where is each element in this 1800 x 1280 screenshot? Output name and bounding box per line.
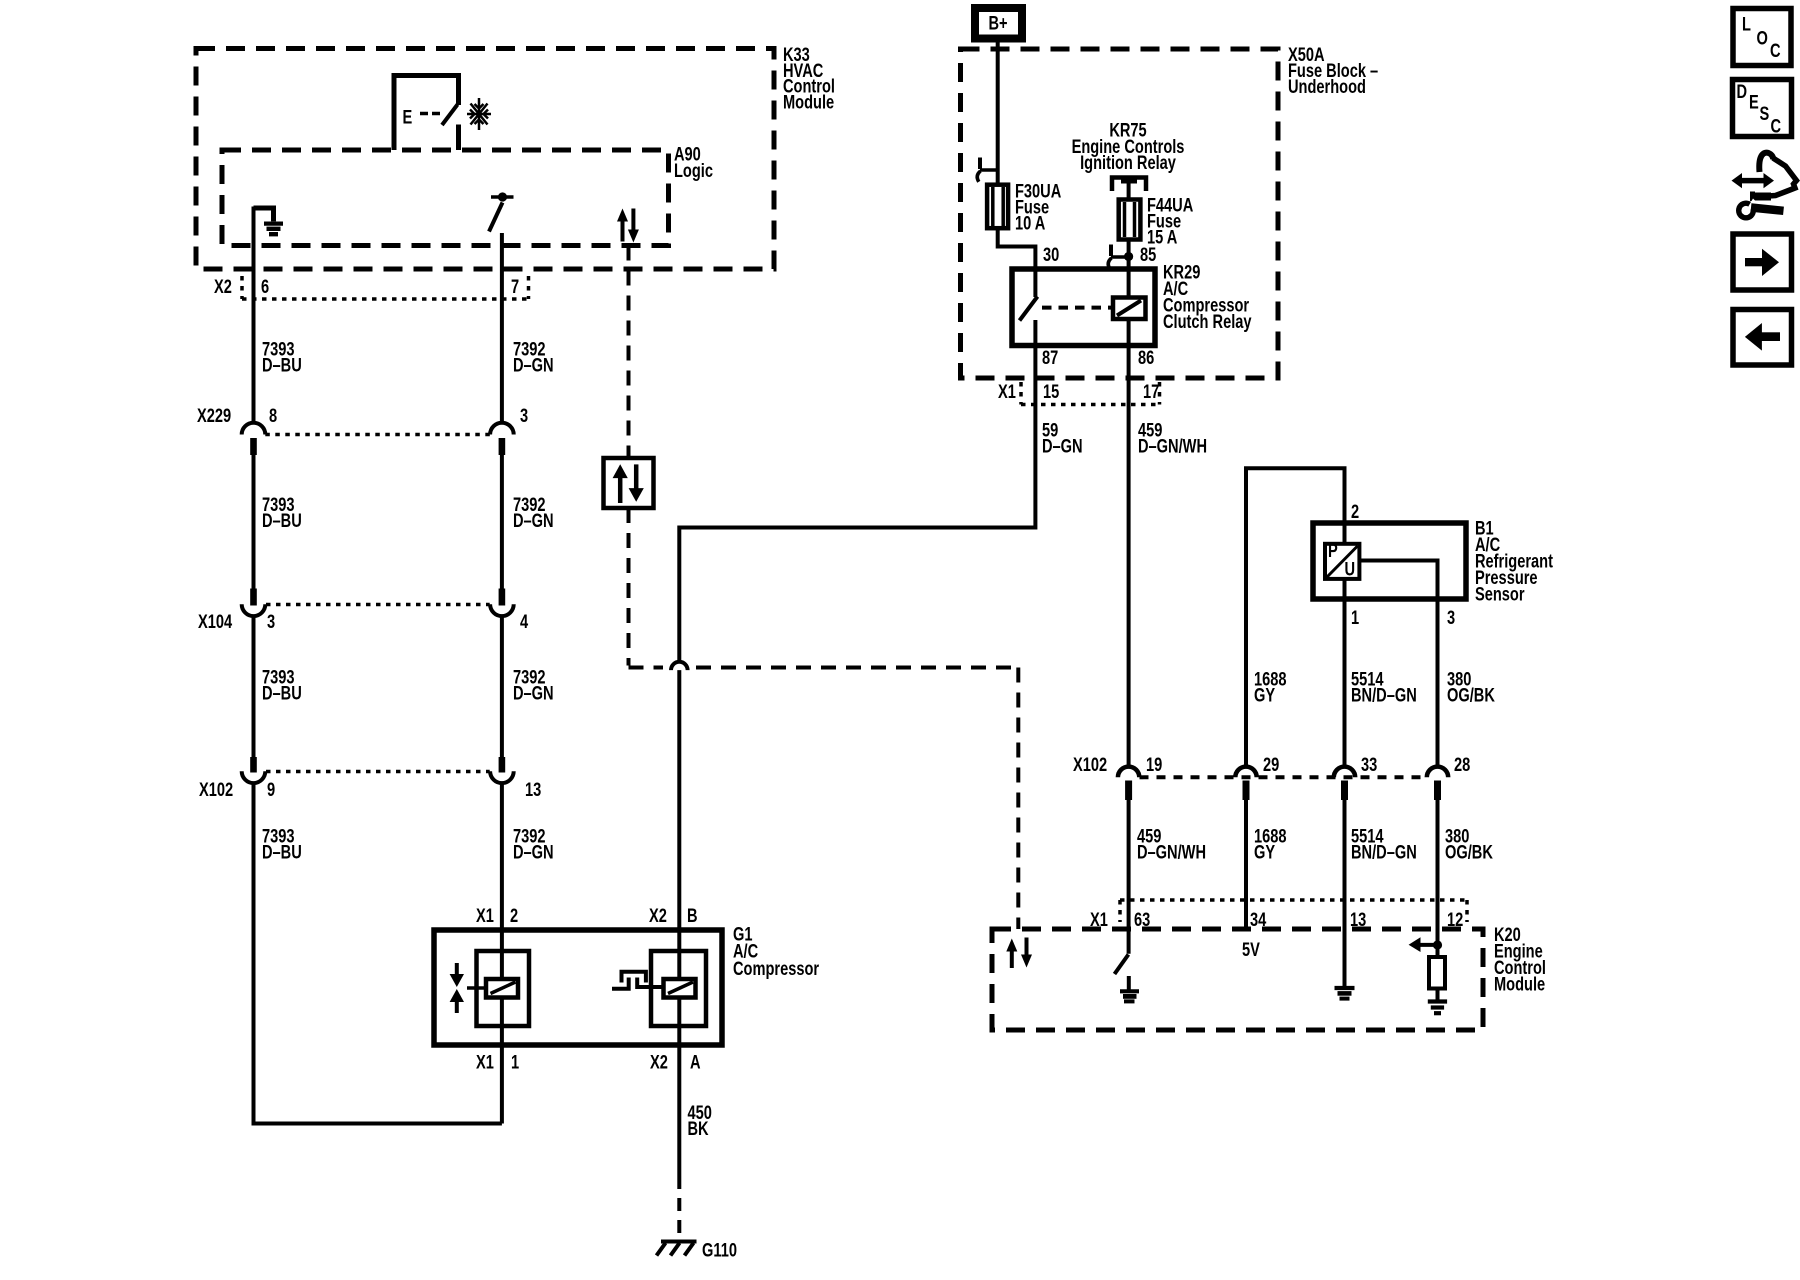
module box K20 Engine Control Module: [992, 929, 1483, 1030]
svg-text:C: C: [1771, 116, 1782, 137]
relay KR29 A/C Compressor Clutch Relay: [1012, 269, 1155, 346]
wire 1688 GY X102-29 to K20 X1-34: [1244, 800, 1248, 929]
svg-text:D–GN: D–GN: [513, 355, 554, 376]
wire 7392 D-GN from A90 switch pin X2-7: [500, 233, 504, 422]
wire from B+ to fuse F30UA: [996, 39, 1000, 186]
svg-text:D–BU: D–BU: [262, 683, 302, 704]
fuse F30UA 10A: [987, 185, 1008, 229]
label wire 7392 D-GN #1: [513, 339, 554, 376]
svg-text:3: 3: [267, 611, 275, 632]
wire 7393 D-BU X229-8 to X104-3: [252, 455, 256, 589]
wire 459 D-GN/WH X102-19 to K20 X1-63: [1127, 800, 1131, 954]
svg-text:6: 6: [261, 276, 269, 297]
svg-text:33: 33: [1361, 754, 1377, 775]
label wire 450 BK: [688, 1102, 712, 1139]
svg-text:X2: X2: [649, 905, 667, 926]
label pin 87: [1042, 347, 1058, 368]
wire 5514 BN/D-GN from B1 pin 1 to X102-33: [1343, 523, 1347, 766]
svg-text:17: 17: [1143, 381, 1159, 402]
svg-text:2: 2: [1351, 501, 1359, 522]
svg-text:GY: GY: [1254, 685, 1276, 706]
svg-text:D–GN/WH: D–GN/WH: [1137, 842, 1206, 863]
label pin 85: [1140, 244, 1156, 265]
svg-text:34: 34: [1250, 909, 1267, 930]
svg-text:L: L: [1742, 14, 1751, 35]
icon vehicle diagnostic with arrows and wrench: [1732, 153, 1797, 221]
svg-text:5V: 5V: [1242, 939, 1260, 960]
label wire 5514 BN/D-GN lower: [1351, 826, 1417, 863]
label wire 1688 GY lower: [1254, 826, 1287, 863]
step signal symbol: [612, 972, 664, 989]
wire KR75 relay to fuse F44UA: [1127, 182, 1131, 200]
label F30UA Fuse 10 A: [1015, 181, 1061, 234]
svg-text:D–GN: D–GN: [513, 842, 554, 863]
switch to ground on K20 pin 63: [1115, 955, 1140, 1002]
label B1 pin 3: [1447, 607, 1455, 628]
icon back arrow box: [1733, 310, 1792, 366]
svg-text:X229: X229: [197, 405, 231, 426]
ground symbol on K20 pin 13: [1335, 988, 1355, 999]
label wire 380 OG/BK upper: [1447, 669, 1496, 706]
wire 380 OG/BK X102-28 to K20 X1-12: [1436, 800, 1440, 957]
svg-text:9: 9: [267, 779, 275, 800]
serial data up-down arrows in A90: [617, 209, 639, 243]
fuse F44UA 15A: [1119, 200, 1141, 240]
svg-text:Module: Module: [1494, 974, 1545, 995]
label wire 7392 D-GN #2: [513, 494, 554, 531]
relay KR75 contact symbol: [1112, 177, 1146, 192]
wire 7393 D-BU X104-3 to X102-9: [252, 617, 256, 758]
wire 7393 D-BU from A90 ground pin X2-6: [252, 207, 256, 422]
connector X102 left row: [242, 757, 514, 783]
wire 7392 D-GN X102-13 to G1 X1-2: [500, 784, 504, 980]
svg-text:S: S: [1760, 103, 1770, 124]
wire 7392 D-GN X229-3 to X104-4: [500, 455, 504, 589]
svg-text:28: 28: [1454, 754, 1470, 775]
svg-text:OG/BK: OG/BK: [1447, 685, 1496, 706]
label B1 pin 1: [1351, 607, 1359, 628]
module box K33 HVAC Control Module: [196, 49, 774, 270]
connector X1 row of K20: [1120, 900, 1467, 922]
label KR75 Engine Controls Ignition Relay: [1072, 120, 1185, 173]
label wire 7393 D-BU #2: [262, 494, 302, 531]
wire from F30UA to KR29 pin 30: [998, 228, 1036, 297]
svg-text:X1: X1: [998, 381, 1016, 402]
label wire 459 D-GN/WH lower: [1137, 826, 1206, 863]
label G1 A/C Compressor: [733, 924, 819, 980]
svg-text:1: 1: [511, 1052, 519, 1073]
connector X229 row: [242, 423, 514, 455]
wire 7392 D-GN X104-4 to X102-13: [500, 617, 504, 758]
svg-text:OG/BK: OG/BK: [1445, 842, 1494, 863]
label pin 86: [1138, 347, 1154, 368]
svg-text:D–BU: D–BU: [262, 510, 302, 531]
label wire 459 D-GN/WH: [1138, 420, 1207, 457]
label wire 380 OG/BK lower: [1445, 826, 1494, 863]
svg-text:19: 19: [1146, 754, 1162, 775]
svg-text:D–GN: D–GN: [513, 683, 554, 704]
svg-text:G110: G110: [702, 1240, 737, 1261]
clip symbol on B+ wire: [977, 158, 997, 182]
connector X1 row of X50A: [1021, 382, 1160, 405]
svg-text:E: E: [403, 107, 413, 128]
label G1 top pins: [476, 905, 698, 926]
G1 control valve inner box: [651, 951, 706, 1026]
clip symbol and junction on KR29 pin 85 wire: [1108, 245, 1133, 269]
module box X50A Fuse Block - Underhood: [961, 49, 1279, 378]
svg-text:D–GN: D–GN: [513, 510, 554, 531]
svg-text:X1: X1: [1090, 909, 1108, 930]
svg-text:Underhood: Underhood: [1288, 76, 1366, 97]
icon LOC box: [1733, 9, 1791, 66]
reference arrow and junction on K20 pin 12: [1409, 937, 1443, 952]
label K20 Engine Control Module: [1494, 924, 1546, 995]
label wire 5514 BN/D-GN upper: [1351, 669, 1417, 706]
label B1 pin 2: [1351, 501, 1359, 522]
wire 5514 BN/D-GN X102-33 to K20 X1-13: [1343, 800, 1347, 986]
svg-text:A: A: [690, 1052, 701, 1073]
wire 7393 D-BU X102-9 to G1 X1-1: [254, 784, 502, 1124]
svg-text:Ignition Relay: Ignition Relay: [1080, 152, 1176, 173]
svg-text:10 A: 10 A: [1015, 213, 1045, 234]
svg-text:BN/D–GN: BN/D–GN: [1351, 685, 1417, 706]
serial data up-down arrows in K20: [1006, 938, 1032, 969]
resistor in K20 on pin 12: [1429, 957, 1445, 989]
svg-text:P: P: [1328, 540, 1338, 561]
label pin 30: [1043, 244, 1059, 265]
label wire 7392 D-GN #4: [513, 826, 554, 863]
svg-text:X104: X104: [198, 611, 233, 632]
connector X2 row: [242, 276, 529, 299]
ground symbol in A90: [254, 208, 284, 234]
connector X104 row: [242, 589, 514, 617]
opposing arrows symbol (clutch engage): [450, 963, 486, 1013]
label wire 1688 GY upper: [1254, 669, 1287, 706]
two-way serial data box symbol: [604, 458, 654, 508]
wire 380 OG/BK from B1 pin 3 to X102-28: [1436, 599, 1440, 766]
svg-text:7: 7: [511, 276, 519, 297]
chassis ground G110: [657, 1242, 697, 1256]
B+ battery feed box: [975, 8, 1022, 39]
wire 459 D-GN/WH from KR29 pin 86 via X1-17 to X102-19: [1127, 320, 1131, 766]
label wire 7393 D-BU #1: [262, 339, 302, 376]
label G1 bottom pins: [476, 1052, 701, 1073]
label KR29 A/C Compressor Clutch Relay: [1163, 262, 1252, 333]
label wire 7393 D-BU #4: [262, 826, 302, 863]
wire serial data (dashed) from A90 to K20: [629, 246, 1019, 930]
svg-text:D–BU: D–BU: [262, 355, 302, 376]
wire 1688 GY from B1 pin 2 to X102-29: [1246, 468, 1345, 765]
svg-text:86: 86: [1138, 347, 1154, 368]
svg-text:4: 4: [520, 611, 529, 632]
label X1 X50A row pins: [998, 381, 1159, 402]
svg-text:Clutch Relay: Clutch Relay: [1163, 311, 1252, 332]
label X102 right row pins: [1073, 754, 1470, 775]
svg-text:D–GN/WH: D–GN/WH: [1138, 436, 1207, 457]
sensor B1 A/C Refrigerant Pressure Sensor: [1313, 523, 1466, 599]
icon forward arrow box: [1733, 234, 1792, 290]
svg-text:1: 1: [1351, 607, 1359, 628]
label X229 row pins: [197, 405, 528, 426]
svg-text:X2: X2: [214, 276, 232, 297]
svg-text:D–GN: D–GN: [1042, 436, 1083, 457]
wire 59 D-GN from KR29 pin 87 via X1-15 to G1 X2-B: [679, 320, 1035, 662]
wire 59 D-GN below hop to G1 X2-B: [677, 670, 681, 980]
label X2 row pins: [214, 276, 519, 297]
svg-text:8: 8: [269, 405, 277, 426]
label X1 K20 row pins: [1090, 909, 1463, 930]
svg-text:X102: X102: [199, 779, 233, 800]
label B1 A/C Refrigerant Pressure Sensor: [1475, 518, 1553, 605]
svg-text:12: 12: [1447, 909, 1463, 930]
label 5V: [1242, 939, 1260, 960]
module box A90 Logic: [222, 150, 669, 246]
svg-text:Compressor: Compressor: [733, 958, 819, 979]
svg-text:B+: B+: [989, 13, 1008, 34]
svg-text:85: 85: [1140, 244, 1156, 265]
label X104 row pins: [198, 611, 529, 632]
svg-text:Module: Module: [783, 92, 834, 113]
label F44UA Fuse 15 A: [1147, 195, 1193, 248]
svg-text:C: C: [1770, 40, 1781, 61]
label K33 HVAC Control Module: [783, 44, 835, 113]
label wire 59 D-GN: [1042, 420, 1083, 457]
connector X102 right row: [1118, 767, 1448, 800]
svg-text:U: U: [1345, 559, 1356, 580]
svg-text:E: E: [1749, 92, 1759, 113]
svg-text:2: 2: [510, 905, 518, 926]
wire from F44UA to KR29 pin 85: [1127, 240, 1131, 297]
svg-text:X1: X1: [476, 1052, 494, 1073]
icon DESC box: [1733, 80, 1792, 137]
svg-text:O: O: [1757, 28, 1768, 49]
svg-text:D: D: [1737, 81, 1748, 102]
wire 450 BK dashed segment to G110: [677, 1176, 681, 1240]
label X50A Fuse Block - Underhood: [1288, 44, 1378, 97]
svg-text:B: B: [687, 905, 698, 926]
temperature switch in A90: [489, 192, 514, 231]
label wire 7392 D-GN #3: [513, 667, 554, 704]
snowflake icon: [467, 98, 491, 130]
label A90 Logic: [674, 144, 713, 182]
svg-text:29: 29: [1263, 754, 1279, 775]
svg-text:X2: X2: [650, 1052, 668, 1073]
wire 450 BK from G1 X2-A: [677, 996, 681, 1176]
thermostat E-box with switch: [394, 76, 459, 151]
svg-text:3: 3: [520, 405, 528, 426]
svg-text:15: 15: [1043, 381, 1059, 402]
label wire 7393 D-BU #3: [262, 667, 302, 704]
svg-text:3: 3: [1447, 607, 1455, 628]
svg-text:Sensor: Sensor: [1475, 584, 1525, 605]
ground symbol below resistor: [1428, 989, 1447, 1014]
compressor G1 outer box: [434, 930, 722, 1045]
label G110: [702, 1240, 737, 1261]
svg-text:13: 13: [1350, 909, 1366, 930]
label X102 left row pins: [199, 779, 541, 800]
svg-text:GY: GY: [1254, 842, 1276, 863]
wire hop over serial data wire: [671, 662, 688, 670]
svg-text:D–BU: D–BU: [262, 842, 302, 863]
svg-text:X1: X1: [476, 905, 494, 926]
svg-text:X102: X102: [1073, 754, 1107, 775]
svg-text:30: 30: [1043, 244, 1059, 265]
svg-text:13: 13: [525, 779, 541, 800]
svg-text:63: 63: [1134, 909, 1150, 930]
svg-text:87: 87: [1042, 347, 1058, 368]
svg-text:BK: BK: [688, 1118, 710, 1139]
svg-text:Logic: Logic: [674, 160, 713, 181]
svg-text:BN/D–GN: BN/D–GN: [1351, 842, 1417, 863]
G1 clutch coil inner box: [477, 951, 530, 1026]
